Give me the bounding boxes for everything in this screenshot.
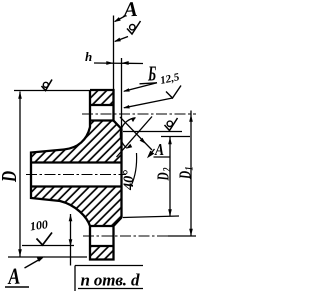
roughness 100 check	[37, 233, 53, 246]
view arrow A top	[115, 16, 126, 22]
underline of A bottom	[5, 286, 29, 288]
dimension line D	[19, 92, 21, 257]
svg-text:D: D	[176, 170, 195, 179]
top bolt hole lower edge	[90, 119, 114, 121]
svg-text:h: h	[85, 49, 92, 64]
top bolt hole upper edge	[90, 104, 114, 106]
D2 bottom extension line	[123, 216, 179, 218]
hatch lower body section	[31, 187, 122, 227]
svg-text:1: 1	[183, 167, 196, 171]
surface finish check on top face	[42, 80, 53, 91]
bottom bolt hole lower edge	[90, 245, 114, 247]
bottom bolt hole centerline	[83, 235, 196, 237]
view arrow A bottom	[25, 258, 43, 268]
main axis centerline	[26, 174, 126, 176]
dimension line h	[94, 62, 143, 65]
hatch top rim section	[90, 90, 114, 105]
leader of B	[124, 83, 157, 91]
bottom extension line L2	[8, 256, 87, 258]
angle line 1 (section trace down-right)	[120, 117, 152, 150]
svg-text:A: A	[121, 0, 138, 22]
hatch bottom rim section	[90, 246, 114, 260]
D2 top extension line A	[123, 131, 182, 133]
surface symbol (check with circle) on D2 extension	[165, 118, 178, 131]
dimension line D2	[169, 137, 171, 217]
surface symbol (check with circle) upper	[127, 21, 141, 34]
view arrow A mid	[149, 149, 155, 156]
top extension line of D	[14, 90, 90, 92]
extension line right of h (boss face extension)	[121, 58, 123, 131]
bore bottom line	[31, 185, 122, 187]
roughness 12,5 check	[166, 86, 181, 99]
angle line 2 (section trace up-right)	[117, 117, 153, 158]
svg-text:Б: Б	[147, 61, 156, 85]
D1 bottom extension	[168, 235, 196, 237]
flange outline	[31, 90, 122, 260]
bore top line	[31, 161, 122, 163]
svg-text:100: 100	[29, 217, 49, 233]
svg-text:D: D	[0, 171, 21, 183]
label box for n holes d	[75, 265, 143, 267]
D2 top extension line B	[161, 136, 190, 138]
bottom extension line L1	[22, 245, 74, 247]
leader of 12,5	[124, 98, 173, 108]
svg-text:n отв. d: n отв. d	[81, 271, 141, 290]
hatch upper body section	[31, 121, 122, 163]
svg-text:D: D	[154, 172, 173, 181]
angle arc	[120, 118, 135, 148]
bottom bolt hole upper edge	[90, 225, 114, 227]
svg-text:A: A	[6, 265, 21, 290]
underline of B	[140, 83, 158, 84]
svg-text:2: 2	[161, 168, 174, 173]
leader of 40 deg	[131, 153, 137, 186]
leader of upper surface symbol	[115, 37, 128, 42]
extension line left of h	[113, 16, 115, 91]
small vertical dimension at x=70	[70, 214, 72, 266]
top bolt hole centerline	[82, 113, 196, 115]
dimension line D1	[190, 111, 192, 237]
